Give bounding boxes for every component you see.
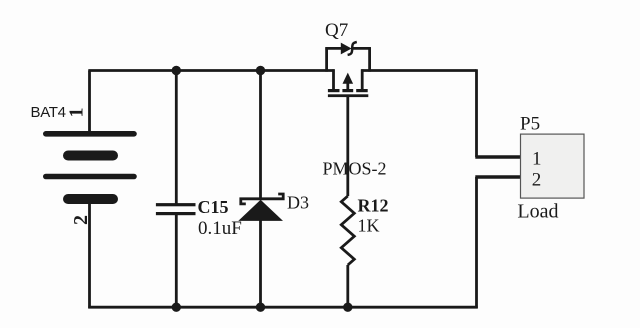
pmos transistor Q7	[325, 42, 370, 97]
Q7 channel bar bulk	[342, 89, 353, 92]
svg-text:2: 2	[532, 169, 542, 190]
wire gate lead Q7 to R12	[346, 96, 349, 197]
wire right vertical upper	[475, 69, 478, 157]
svg-text:2: 2	[70, 215, 92, 225]
wire battery positive lead	[88, 71, 91, 135]
Q7 source stub	[332, 69, 335, 89]
wire diode top lead	[259, 69, 262, 199]
junction node top rail / D3	[256, 66, 265, 75]
junction node bottom rail / D3	[256, 303, 265, 312]
wire bottom rail	[88, 306, 477, 309]
Q7 bulk arrow head	[343, 73, 354, 84]
Q7 body diode loop top right wire	[353, 47, 371, 50]
wire top rail left segment	[88, 69, 334, 72]
svg-text:D3: D3	[287, 193, 309, 213]
Q7 gate line	[328, 94, 368, 97]
junction node top rail / C15	[172, 66, 181, 75]
wire right vertical lower	[475, 177, 478, 308]
Q7 body diode cathode curve	[348, 42, 357, 55]
junction node bottom rail / R12	[343, 303, 352, 312]
Q7 bulk arrow shaft	[346, 82, 349, 91]
svg-text:C15: C15	[198, 197, 229, 217]
P5 pin 1 lead	[475, 155, 521, 158]
wire top rail right segment	[361, 69, 476, 72]
P5 box	[521, 134, 585, 198]
wire capacitor top lead	[175, 69, 178, 204]
wire diode bottom lead	[259, 221, 262, 308]
zener diode D3	[238, 194, 283, 221]
svg-text:PMOS-2: PMOS-2	[323, 159, 387, 179]
svg-text:Q7: Q7	[325, 20, 348, 41]
svg-text:0.1uF: 0.1uF	[198, 218, 242, 239]
Q7 body diode loop top left wire	[325, 47, 341, 50]
Q7 body diode loop left side	[325, 47, 328, 71]
svg-text:P5: P5	[520, 114, 540, 135]
svg-text:1: 1	[66, 108, 88, 118]
Q7 body diode triangle	[341, 43, 352, 55]
P5 pin 2 lead	[475, 175, 521, 178]
svg-text:1K: 1K	[358, 216, 380, 236]
battery BAT4	[43, 131, 137, 204]
svg-text:1: 1	[532, 149, 542, 170]
capacitor C15 plates	[156, 203, 196, 215]
svg-text:BAT4: BAT4	[31, 104, 66, 121]
Q7 channel bar source	[328, 89, 340, 92]
svg-text:R12: R12	[358, 196, 389, 216]
wire battery negative lead	[88, 199, 91, 308]
Q7 channel bar drain	[356, 89, 368, 92]
connector P5	[475, 134, 584, 198]
Q7 drain stub	[361, 69, 364, 89]
svg-text:Load: Load	[517, 201, 558, 223]
Q7 body diode loop right side	[368, 47, 371, 71]
wire resistor bottom lead	[346, 265, 349, 307]
resistor R12	[341, 196, 354, 265]
junction node bottom rail / C15	[172, 303, 181, 312]
wire capacitor bottom lead	[175, 215, 178, 308]
